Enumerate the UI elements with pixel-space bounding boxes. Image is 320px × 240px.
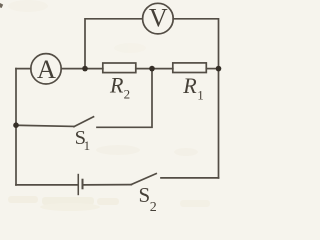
switch S2 blade [132,174,157,185]
resistor R1 [173,63,207,73]
battery long plate (positive) [77,174,79,195]
paper stains (bleed-through) [8,0,210,211]
node J2 (R2 / R1 / S1 junction) [149,66,155,72]
node J1 (ammeter / voltmeter junction) [82,66,88,72]
wire: battery to switch S2 pivot [84,184,131,186]
wire: left vertical side [15,69,17,185]
node J3 (R1 / voltmeter right junction) [216,66,222,72]
wire: S1 pivot to left side node [16,125,74,126]
node J4 (left side / S1 junction) [13,122,19,128]
wire: voltmeter to right vertical [173,19,218,178]
wire: S2 fixed contact to bottom-right corner [161,177,219,179]
wire: ammeter to node J1 and R2 [61,68,103,70]
wire: top row left segment [16,68,31,70]
ammeter A [31,54,61,84]
svg-text:2: 2 [150,200,157,215]
svg-text:A: A [37,54,56,84]
svg-text:1: 1 [84,138,91,153]
svg-text:V: V [149,3,168,32]
svg-text:2: 2 [124,87,131,102]
wire: bottom-left to battery [16,184,77,186]
resistor R2 [103,63,136,73]
voltmeter V [143,3,174,34]
scan speck top-left [0,3,3,8]
svg-text:S: S [139,183,151,207]
battery cell [78,174,83,195]
wire: S1 branch from node J2 down and left [97,69,152,128]
paper background [0,0,224,217]
wire: voltmeter branch riser [85,19,143,69]
svg-text:R: R [109,73,124,98]
svg-text:1: 1 [197,87,204,102]
svg-text:R: R [182,73,197,98]
switch S1 blade [74,117,94,127]
wire: R1 to right node [206,68,218,70]
wire: R2 to R1 [136,68,173,70]
battery short plate (negative) [82,179,85,190]
